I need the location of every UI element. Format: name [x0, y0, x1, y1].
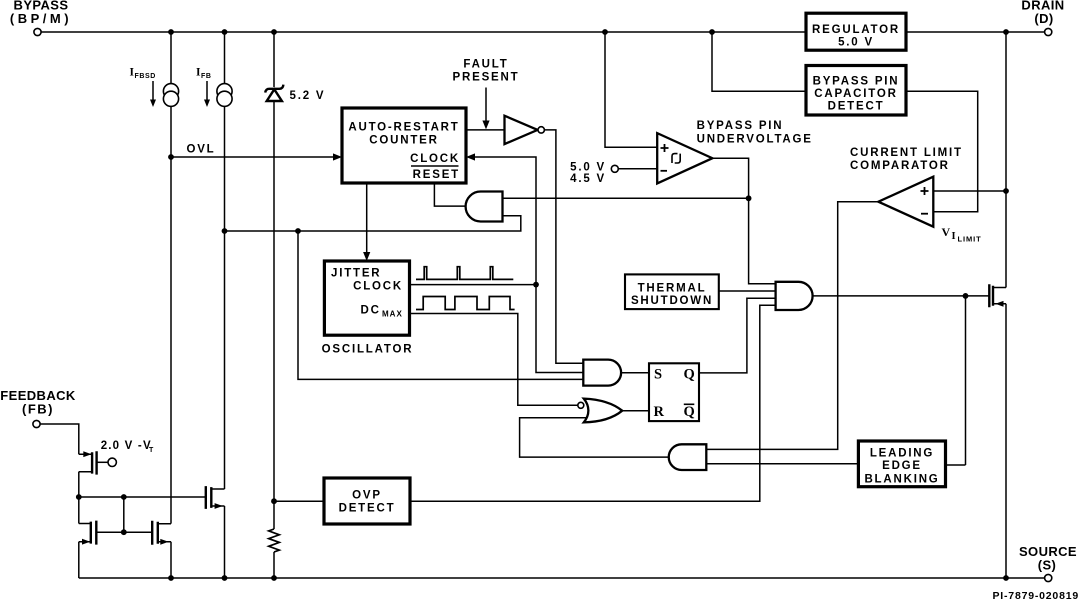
- svg-text:EDGE: EDGE: [882, 460, 922, 472]
- svg-text:5.0 V: 5.0 V: [570, 161, 606, 173]
- svg-text:AUTO-RESTART: AUTO-RESTART: [348, 122, 459, 134]
- svg-text:(BP/M): (BP/M): [10, 11, 72, 26]
- svg-text:OSCILLATOR: OSCILLATOR: [322, 344, 414, 356]
- svg-text:(S): (S): [1038, 558, 1057, 573]
- svg-text:2.0 V -V: 2.0 V -V: [101, 440, 152, 452]
- svg-text:OVL: OVL: [186, 144, 215, 156]
- svg-text:R: R: [654, 404, 665, 420]
- svg-text:RESET: RESET: [413, 169, 460, 181]
- svg-text:CAPACITOR: CAPACITOR: [814, 88, 898, 100]
- svg-text:(D): (D): [1034, 11, 1053, 26]
- svg-text:CLOCK: CLOCK: [353, 280, 403, 292]
- svg-text:FAULT: FAULT: [463, 58, 508, 70]
- svg-text:T: T: [149, 447, 154, 454]
- svg-text:UNDERVOLTAGE: UNDERVOLTAGE: [697, 133, 813, 145]
- svg-text:THERMAL: THERMAL: [638, 283, 707, 295]
- svg-text:S: S: [654, 367, 662, 383]
- svg-text:COMPARATOR: COMPARATOR: [850, 160, 950, 172]
- svg-text:PI-7879-020819: PI-7879-020819: [992, 590, 1079, 600]
- svg-text:REGULATOR: REGULATOR: [812, 24, 900, 36]
- svg-text:MAX: MAX: [382, 310, 403, 319]
- svg-text:5.0 V: 5.0 V: [838, 37, 874, 49]
- svg-text:DC: DC: [361, 305, 381, 317]
- svg-text:COUNTER: COUNTER: [369, 135, 438, 147]
- svg-text:FB: FB: [201, 73, 212, 80]
- svg-text:LEADING: LEADING: [870, 447, 934, 459]
- svg-text:(FB): (FB): [22, 402, 54, 417]
- svg-text:Q: Q: [684, 367, 695, 383]
- svg-text:OVP: OVP: [352, 490, 382, 502]
- svg-text:LIMIT: LIMIT: [958, 235, 982, 244]
- svg-text:DETECT: DETECT: [828, 101, 885, 113]
- svg-text:CLOCK: CLOCK: [410, 153, 460, 165]
- svg-text:BYPASS PIN: BYPASS PIN: [813, 75, 900, 87]
- svg-text:JITTER: JITTER: [331, 268, 381, 280]
- svg-text:BLANKING: BLANKING: [864, 474, 939, 486]
- svg-text:FBSD: FBSD: [135, 73, 156, 80]
- svg-text:V: V: [942, 225, 951, 239]
- svg-text:Q: Q: [684, 404, 695, 420]
- svg-text:DETECT: DETECT: [339, 503, 396, 515]
- svg-text:PRESENT: PRESENT: [453, 72, 520, 84]
- svg-text:5.2 V: 5.2 V: [290, 90, 326, 102]
- svg-text:I: I: [952, 231, 956, 242]
- svg-text:4.5 V: 4.5 V: [570, 173, 606, 185]
- svg-text:SHUTDOWN: SHUTDOWN: [631, 295, 713, 307]
- svg-text:BYPASS PIN: BYPASS PIN: [697, 120, 784, 132]
- svg-text:CURRENT LIMIT: CURRENT LIMIT: [850, 147, 963, 159]
